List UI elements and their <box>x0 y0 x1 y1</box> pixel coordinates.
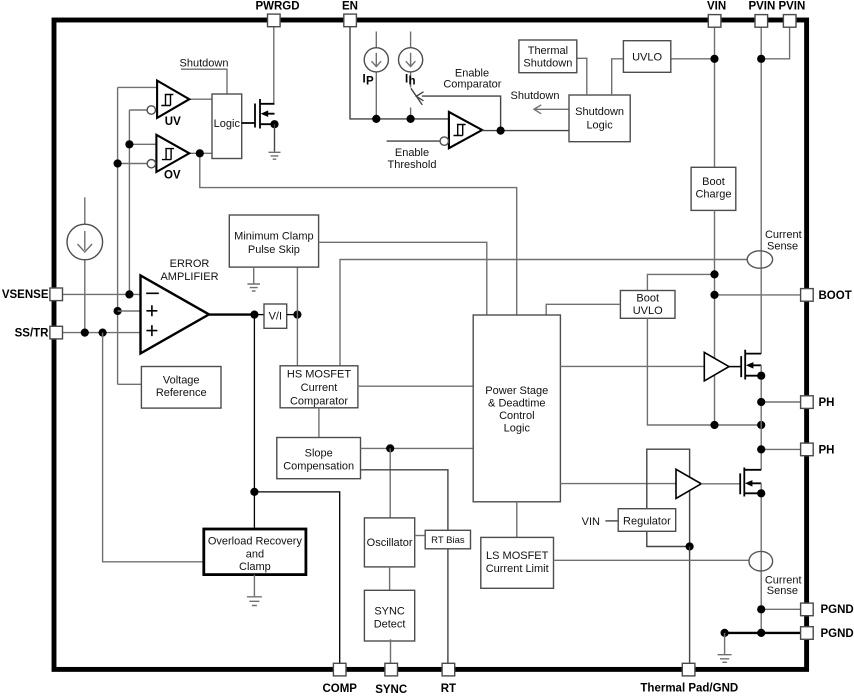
pin EN <box>344 14 357 27</box>
svg-text:Control: Control <box>499 410 534 422</box>
buffer HS driver <box>704 352 729 381</box>
wire Power Stage to LS current limit <box>516 502 518 538</box>
pin PVIN 1 <box>755 15 768 28</box>
svg-text:Minimum Clamp: Minimum Clamp <box>234 231 313 243</box>
svg-text:Shutdown: Shutdown <box>511 90 560 102</box>
current source SS charge <box>67 197 103 332</box>
box Boot UVLO <box>620 291 675 319</box>
svg-text:ERROR: ERROR <box>170 258 210 270</box>
pin SS/TR wire <box>63 332 141 334</box>
pin PVIN 2 <box>783 15 796 28</box>
node junction PGND2 gnd <box>721 629 729 637</box>
node junction regulator gnd <box>686 542 694 550</box>
svg-text:Thermal Pad/GND: Thermal Pad/GND <box>640 682 738 694</box>
svg-text:SS/TR: SS/TR <box>15 328 50 340</box>
wire Minimum Clamp to Power Stage <box>319 242 487 315</box>
box RT Bias <box>425 530 470 549</box>
svg-text:Boot: Boot <box>636 293 659 305</box>
svg-text:LS MOSFET: LS MOSFET <box>486 550 549 562</box>
switch Ih enable <box>411 88 422 105</box>
wire slope comp to RT bias <box>361 470 448 531</box>
node junction PH1 <box>757 398 765 406</box>
wire HS comparator to slope comp <box>318 408 320 438</box>
pin Thermal Pad/GND <box>682 663 695 676</box>
pin PGND 2 <box>801 627 814 640</box>
wire hysteresis feedback arrow <box>416 92 500 131</box>
wire LS driver input <box>560 483 676 485</box>
svg-text:VIN: VIN <box>707 1 726 13</box>
node junction boot ph A <box>710 421 718 429</box>
wire HS driver input <box>560 365 704 367</box>
comparator enable <box>440 112 482 148</box>
pin SYNC <box>385 663 398 676</box>
svg-text:Shutdown: Shutdown <box>575 106 624 118</box>
box SYNC Detect <box>364 590 414 641</box>
svg-text:V/I: V/I <box>269 310 282 322</box>
wire UV+ input <box>118 86 158 88</box>
wire Boot UVLO top <box>647 274 714 290</box>
wire UV- input <box>129 109 147 111</box>
wire PVIN net 1 <box>760 27 762 354</box>
svg-text:PVIN: PVIN <box>778 1 805 13</box>
wire V/I output <box>287 314 298 316</box>
node junction boot uvlo tap <box>710 270 718 278</box>
wire LS driver to gate <box>701 483 740 485</box>
comparator OV <box>147 135 189 182</box>
current source Ip <box>363 32 389 119</box>
node junction EN Ip <box>372 115 380 123</box>
wire EA output <box>209 313 253 315</box>
svg-text:OV: OV <box>164 170 181 182</box>
wire HS comparator output <box>358 385 473 387</box>
svg-text:Logic: Logic <box>214 118 241 130</box>
node junction OV output <box>196 149 204 157</box>
pin VSENSE <box>50 288 63 301</box>
logic box Logic <box>212 94 242 159</box>
pin BOOT <box>801 289 814 302</box>
svg-text:Shutdown: Shutdown <box>180 58 229 70</box>
node junction boot ph B <box>757 421 765 429</box>
node junction PGND2 <box>757 629 765 637</box>
svg-text:Comparator: Comparator <box>290 395 348 407</box>
svg-text:Pulse Skip: Pulse Skip <box>248 244 300 256</box>
node junction OV+ <box>125 140 133 148</box>
node junction SS to overload <box>99 329 107 337</box>
svg-text:PH: PH <box>819 397 835 409</box>
wire slope comp output to Power Stage <box>361 447 474 449</box>
wire thermal pad net <box>689 547 691 664</box>
box Voltage Reference <box>141 367 221 409</box>
svg-text:Voltage: Voltage <box>163 375 200 387</box>
svg-text:Overload Recovery: Overload Recovery <box>208 536 303 548</box>
svg-text:PH: PH <box>819 444 835 456</box>
pin PGND 1 <box>801 603 814 616</box>
pin VSENSE wire <box>63 293 141 295</box>
wire regulator loop <box>647 449 690 546</box>
pin COMP <box>333 663 346 676</box>
node junction LS source <box>757 489 765 497</box>
box Power Stage and Deadtime Control Logic <box>473 315 560 502</box>
transistor Q1 HS MOSFET <box>741 350 761 380</box>
svg-text:UVLO: UVLO <box>633 305 663 317</box>
wire V/I vertical to comparator <box>296 267 298 366</box>
wire RT net <box>447 549 449 663</box>
svg-text:EN: EN <box>342 1 358 13</box>
svg-text:RT: RT <box>441 683 456 694</box>
svg-text:h: h <box>409 76 416 88</box>
wire PVIN net 2 <box>761 27 789 59</box>
node junction boot pin tap <box>710 291 718 299</box>
box Boot Charge <box>691 167 736 210</box>
wire Thermal Shutdown to Shutdown Logic <box>577 58 587 95</box>
node junction slope comp to oscillator <box>386 444 394 452</box>
wire BOOT vertical <box>714 210 716 425</box>
svg-text:HS MOSFET: HS MOSFET <box>287 369 351 381</box>
current source Ih <box>399 32 423 119</box>
svg-text:Current: Current <box>301 382 338 394</box>
wire UVLO to VIN <box>671 58 715 60</box>
wire shutdown arrow <box>534 105 569 114</box>
wire COMP net <box>254 315 339 663</box>
wire Boot UVLO left to Power Stage <box>546 304 620 315</box>
box Overload Recovery and Clamp <box>204 529 306 575</box>
svg-text:PGND: PGND <box>821 604 854 616</box>
svg-text:Power Stage: Power Stage <box>485 385 548 397</box>
node junction EN Ih <box>407 115 415 123</box>
wire oscillator to RT bias <box>415 535 426 537</box>
wire PH net vertical <box>760 365 762 470</box>
wire OV output to Power Stage <box>200 153 517 315</box>
wire PGND pin 2 <box>725 632 801 634</box>
pin SS/TR <box>50 326 63 339</box>
svg-text:Threshold: Threshold <box>388 159 437 171</box>
node junction OV- <box>114 159 122 167</box>
svg-text:Logic: Logic <box>504 422 531 434</box>
pin VIN <box>708 15 721 28</box>
pin PH 2 <box>801 443 814 456</box>
svg-text:Sense: Sense <box>767 240 798 252</box>
svg-text:P: P <box>366 76 374 88</box>
comparator UV <box>147 81 189 128</box>
svg-text:RT Bias: RT Bias <box>431 535 465 546</box>
ground under Overload Recovery <box>247 575 262 606</box>
box V/I converter <box>264 304 287 328</box>
box LS MOSFET Current Limit <box>481 537 554 588</box>
transistor M1 PWRGD pulldown <box>242 99 279 152</box>
svg-text:SYNC: SYNC <box>374 606 405 618</box>
node junction VSENSE <box>125 290 133 298</box>
wire BOOT pin <box>715 294 801 296</box>
svg-text:Compensation: Compensation <box>283 460 354 472</box>
svg-text:Reference: Reference <box>156 387 207 399</box>
svg-text:Detect: Detect <box>374 619 406 631</box>
node junction V/I output <box>293 311 301 319</box>
wire PH pin 2 <box>761 448 800 450</box>
wire VIN to regulator <box>605 520 618 522</box>
wire current sense to HS comparator <box>340 260 747 366</box>
svg-text:Current Limit: Current Limit <box>486 563 549 575</box>
wire EA output to V/I <box>254 314 264 316</box>
box Oscillator <box>364 518 414 567</box>
node junction EA output <box>250 311 258 319</box>
wire HS driver to gate <box>729 366 741 368</box>
node junction PGND1 <box>757 605 765 613</box>
wire enable comparator output <box>482 130 569 132</box>
node junction SS current source <box>81 329 89 337</box>
svg-text:Boot: Boot <box>702 176 725 188</box>
wire PH pin 1 <box>761 401 800 403</box>
svg-text:Enable: Enable <box>395 147 429 159</box>
wire UVLO to Shutdown Logic <box>612 59 624 95</box>
svg-text:Current: Current <box>765 229 802 241</box>
wire UV output <box>189 98 212 100</box>
node junction VIN UVLO <box>710 55 718 63</box>
svg-text:VIN: VIN <box>582 516 600 528</box>
svg-text:Logic: Logic <box>586 120 613 132</box>
svg-text:BOOT: BOOT <box>819 290 852 302</box>
current sense LS <box>749 551 802 597</box>
node junction HS source <box>757 372 765 380</box>
box Regulator <box>618 509 676 532</box>
wire LS source net <box>760 483 762 633</box>
wire Voltage Reference output <box>118 383 142 385</box>
wire oscillator to sync detect <box>389 567 391 590</box>
node junction PH2 <box>757 445 765 453</box>
wire EN net <box>350 27 449 119</box>
svg-text:UV: UV <box>165 116 181 128</box>
transistor Q2 LS MOSFET <box>740 468 761 497</box>
box Shutdown Logic <box>569 95 630 142</box>
op-amp U1 error amplifier <box>141 258 219 354</box>
wire SYNC net <box>390 639 392 663</box>
wire VIN net <box>714 27 716 168</box>
wire reference feed vertical A <box>117 87 119 384</box>
wire OV+ input <box>129 143 156 145</box>
svg-text:Slope: Slope <box>305 447 333 459</box>
current sense HS <box>747 229 801 268</box>
svg-text:Clamp: Clamp <box>239 561 271 573</box>
box Slope Compensation <box>277 438 361 479</box>
node junction COMP <box>250 488 258 496</box>
svg-text:COMP: COMP <box>322 683 357 694</box>
ground under Minimum Clamp <box>247 267 260 291</box>
svg-text:SYNC: SYNC <box>375 684 407 694</box>
wire OV- input <box>118 163 148 165</box>
wire oscillator drop <box>389 448 391 518</box>
pin PH 1 <box>801 396 814 409</box>
wire LS current limit to current sense <box>554 559 750 561</box>
ground power <box>718 633 732 662</box>
wire enable threshold input <box>387 140 441 142</box>
box HS MOSFET Current Comparator <box>280 366 358 408</box>
svg-text:& Deadtime: & Deadtime <box>488 397 545 409</box>
wire PWRGD net <box>273 27 275 105</box>
svg-text:Thermal: Thermal <box>528 45 568 57</box>
wire reference feed vertical B <box>128 110 130 294</box>
svg-text:Charge: Charge <box>695 189 731 201</box>
ground under M1 <box>269 152 281 159</box>
svg-text:Oscillator: Oscillator <box>367 537 413 549</box>
wire Boot UVLO bottom to PH <box>647 318 761 425</box>
svg-text:PWRGD: PWRGD <box>255 1 299 13</box>
pin PWRGD <box>268 14 281 27</box>
wire Shutdown label underline to Logic <box>181 69 227 94</box>
svg-text:Comparator: Comparator <box>443 78 501 90</box>
svg-text:PVIN: PVIN <box>748 1 775 13</box>
wire EA plus input <box>118 310 141 312</box>
box Thermal Shutdown <box>519 40 577 73</box>
wire SS/TR to Overload Recovery <box>103 333 204 562</box>
pin RT <box>442 663 455 676</box>
svg-text:Regulator: Regulator <box>623 515 671 527</box>
node junction PVIN <box>757 55 765 63</box>
box UVLO <box>623 41 670 73</box>
svg-text:AMPLIFIER: AMPLIFIER <box>160 271 218 283</box>
node junction enable comparator output <box>497 127 505 135</box>
svg-text:PGND: PGND <box>821 628 854 640</box>
svg-text:UVLO: UVLO <box>632 52 662 64</box>
box Minimum Clamp Pulse Skip <box>229 215 318 267</box>
svg-text:Shutdown: Shutdown <box>523 57 572 69</box>
svg-text:Sense: Sense <box>767 585 798 597</box>
svg-text:VSENSE: VSENSE <box>2 289 49 301</box>
svg-text:and: and <box>246 548 264 560</box>
wire OV output <box>189 152 212 154</box>
wire PGND pin 1 <box>761 608 800 610</box>
buffer LS driver <box>676 469 701 498</box>
node junction EA plus input <box>114 307 122 315</box>
